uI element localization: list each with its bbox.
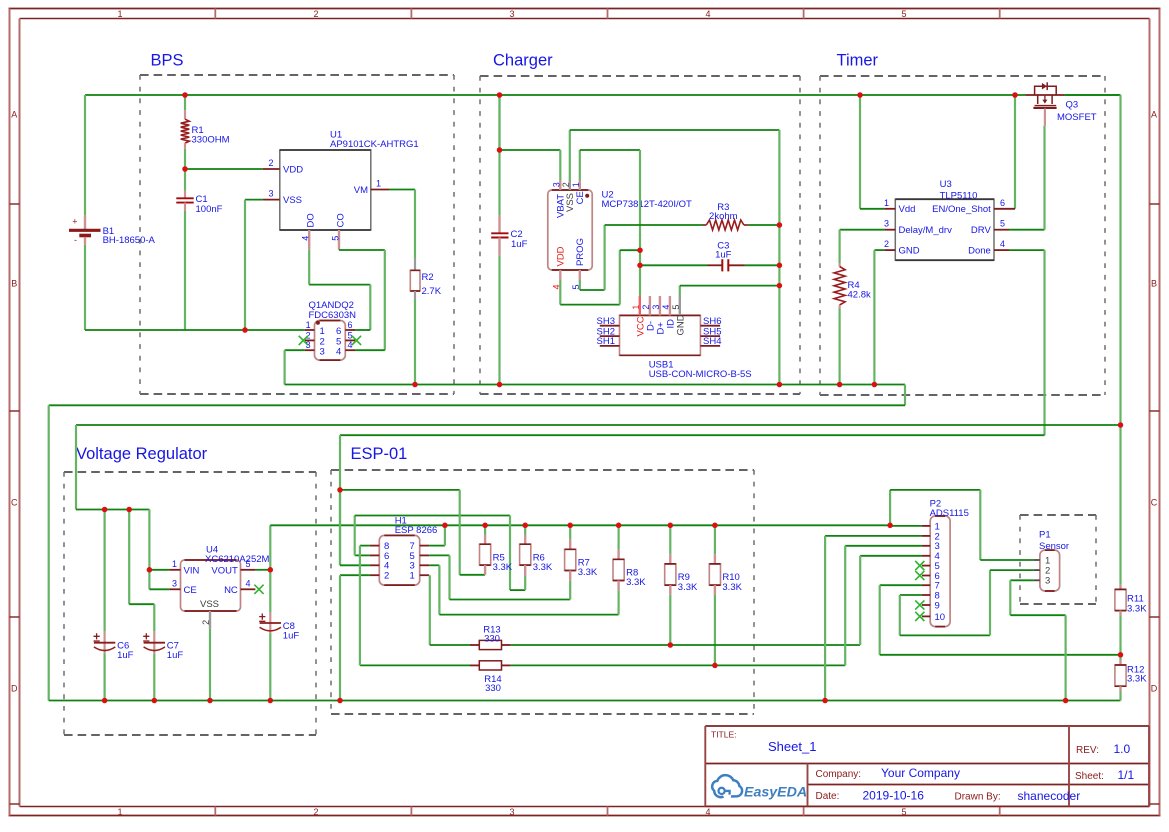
wire U3 Vdd from rail [859,95,861,209]
svg-text:2: 2 [313,9,318,19]
svg-text:EN/One_Shot: EN/One_Shot [932,204,991,215]
svg-text:1: 1 [172,559,177,569]
svg-text:REV:: REV: [1076,745,1099,756]
svg-text:Sheet:: Sheet: [1075,771,1104,782]
svg-text:Delay/M_drv: Delay/M_drv [899,225,953,236]
wire H1 pin6 to R6 [355,554,370,556]
junction U4 VSS ground [207,698,213,704]
wire Done down [1009,249,1045,251]
wire ground rail jog [904,385,906,406]
resistor R9 3.3K [669,525,671,554]
wire Delay to R4 [840,229,885,231]
junction U3 GND rail [872,382,878,388]
H1 pin 6 [370,554,379,556]
junction U3 Vdd [857,92,863,98]
resistor R4 [838,263,840,267]
svg-text:5: 5 [671,305,681,310]
wire P2 pin7 to R11 node [880,584,922,586]
svg-text:B: B [11,279,17,289]
svg-text:2: 2 [561,182,571,187]
U3 pin 4 Done [994,249,1009,251]
wire C2 to ground rail [498,238,500,256]
wire R3 to VSS vertical [749,224,780,226]
svg-text:ESP-01: ESP-01 [351,445,408,463]
svg-text:1: 1 [410,571,415,582]
U1 pin 1 VM [371,189,389,191]
EasyEDA logo [712,775,742,797]
svg-text:1uF: 1uF [167,650,184,661]
U3 pin 2 GND [884,249,895,251]
svg-text:5: 5 [246,559,251,569]
svg-text:Vdd: Vdd [899,204,916,215]
wire R2 to ground rail [414,300,416,385]
svg-text:Company:: Company: [816,769,862,780]
wire R13 row left [430,644,470,646]
USB1 shield pin SH1 [600,345,620,347]
svg-text:TLP5110: TLP5110 [940,190,978,201]
resistor R5 3.3K [484,525,486,534]
wire R14 row right [511,664,845,666]
svg-text:VIN: VIN [184,565,200,576]
USB1 shield pin SH4 [700,345,720,347]
svg-text:3.3K: 3.3K [493,562,513,573]
IC U4 XC6210A252M [181,560,241,611]
wire C7 branch [128,510,130,605]
wire U1 VM to R2 [389,189,415,191]
junction VIN node [147,567,153,573]
svg-text:NC: NC [224,585,238,596]
Q1 pin 1 [305,329,315,331]
connector P2 ADS1115 [930,516,950,627]
wire CE to USB VCC [639,150,641,296]
U4 pin 5 VOUT [241,569,256,571]
wire DO to Q1 pin6 [308,250,310,285]
wire rail to R1 [184,95,186,110]
Q1 pin 6 [345,329,355,331]
P2 pin 1 [922,525,930,527]
svg-text:VM: VM [354,185,368,196]
junction R1 top [182,92,188,98]
svg-text:SH4: SH4 [703,336,721,347]
wire P1 pin3 to ground [1010,579,1034,581]
svg-text:DO: DO [305,213,316,227]
BPS dashed box [140,75,454,394]
junction C3 left [637,263,643,269]
svg-text:3.3K: 3.3K [533,562,553,573]
U4 pin 2 VSS [209,611,211,629]
svg-text:VSS: VSS [283,195,302,206]
svg-text:4: 4 [336,347,341,358]
wire VR top distribution [76,509,149,511]
H1 pin 4 [370,564,379,566]
USB1 shield pin SH6 [700,325,720,327]
svg-text:4: 4 [705,9,710,19]
svg-text:CO: CO [335,213,346,227]
Charger dashed box [480,76,800,394]
U3 pin 1 Vdd [884,208,895,210]
wire R4 to ground rail [838,309,840,385]
svg-text:MOSFET: MOSFET [1057,112,1097,123]
wire U1 VSS to ground row [245,199,263,201]
U2 pin 4 VDD [559,270,561,280]
svg-text:CE: CE [184,585,197,596]
wire H1 pin5 to R7 [429,554,449,556]
P2 pin 8 [922,594,930,596]
junction H1 pin2 ground [337,698,343,704]
no-connect X Q1 pin 5 [352,336,361,345]
svg-text:P1: P1 [1039,530,1051,541]
junction [497,147,503,153]
connector USB1 USB-CON-MICRO-B-5S [620,315,701,355]
capacitor C6 [103,632,105,654]
junction C6 ground [102,698,108,704]
wire charger VBAT feed [498,95,500,150]
junction C6 top [102,507,108,513]
wire U4 VSS to ground [209,629,211,701]
svg-text:R2: R2 [422,272,434,283]
Q1 pin 2 [305,339,315,341]
USB1 pin 3 D+ [659,296,661,315]
wire Done rail [340,434,1045,436]
svg-text:SH6: SH6 [703,316,721,327]
wire P2 pin4 to R13 row [860,555,922,557]
P2 pin 4 [922,555,930,557]
svg-text:2: 2 [268,158,273,168]
U3 pin 3 Delay/M_drv [884,229,895,231]
svg-text:VDD: VDD [283,165,303,176]
svg-text:Done: Done [968,246,991,257]
svg-text:330OHM: 330OHM [192,135,230,146]
svg-text:3.3K: 3.3K [722,582,742,593]
wire battery positive [84,95,86,215]
junction C8 ground [268,698,274,704]
svg-text:BPS: BPS [151,51,184,69]
svg-text:1: 1 [117,9,122,19]
svg-text:1: 1 [631,305,641,310]
Q1 pin 4 [345,349,355,351]
junction R9 R13 [668,642,674,648]
no-connect X P2 pin 9 [915,600,924,609]
svg-text:Charger: Charger [493,51,553,69]
svg-text:CE: CE [575,191,586,204]
H1 pin 8 [370,545,379,547]
svg-text:Timer: Timer [837,51,879,69]
no-connect X P2 pin 5 [915,561,924,570]
wire R10 to R14 row [714,595,716,666]
svg-text:Q3: Q3 [1066,100,1079,111]
Q1 pin 3 [305,349,315,351]
U4 pin 4 NC [241,588,256,590]
wire C8 to ground [269,634,271,701]
svg-text:3: 3 [320,347,325,358]
svg-text:4: 4 [661,305,671,310]
junction R4 ground rail [837,382,843,388]
svg-text:SH1: SH1 [597,336,615,347]
wire VIN stub link [149,569,169,571]
svg-text:Sheet_1: Sheet_1 [768,739,816,754]
wire 3.3V branch to P1 pin1 [889,490,891,526]
wire VDD node to U1 pin2 [185,168,263,170]
junction P2 pin1 rail [887,523,893,529]
svg-text:2: 2 [201,620,211,625]
IC U1 AP9101CK-AHTRG1 [280,150,371,230]
ESP-01 dashed box [331,470,754,714]
P2 pin 6 [922,575,930,577]
wire U2 PROG to R3 [579,280,581,290]
junction regulator input at right column [1118,422,1124,428]
svg-text:5: 5 [901,807,906,817]
U2 pin 3 VBAT [559,180,561,190]
svg-text:D: D [11,684,18,694]
svg-text:3.3K: 3.3K [578,567,598,578]
svg-text:ADS1115: ADS1115 [930,508,969,519]
wire 3.3V rail [270,524,890,526]
connector P1 Sensor [1040,550,1060,591]
svg-text:1uF: 1uF [715,249,732,260]
wire C6 branch [103,510,105,632]
svg-text:U3: U3 [940,179,952,190]
svg-text:3: 3 [551,182,561,187]
svg-text:1uF: 1uF [511,239,528,250]
P2 pin 5 [922,565,930,567]
P2 pin 2 [922,535,930,537]
junction R7 top [567,523,573,529]
junction C2 bottom rail [497,382,503,388]
svg-text:2019-10-16: 2019-10-16 [863,789,925,803]
wire C3 right [745,264,780,266]
connector H1 ESP 8266 [379,535,419,585]
junction C7 ground [152,698,158,704]
wire VBAT+ top rail [85,94,1025,96]
frame column ticks top [214,9,216,19]
resistor R6 3.3K [524,525,526,534]
wire C7 to ground [153,653,155,700]
wire main ground rail [49,700,1121,702]
junction R8 top [616,523,622,529]
no-connect X Q1 pin 2 [299,336,308,345]
H1 pin 3 [420,564,430,566]
junction VDD node [182,166,188,172]
resistor R8 3.3K [617,525,619,549]
USB1 pin 2 D- [649,296,651,315]
svg-text:MCP73812T-420I/OT: MCP73812T-420I/OT [602,199,692,210]
no-connect X U4 NC [254,585,263,594]
svg-text:3: 3 [509,9,514,19]
U1 pin 4 DO [308,230,310,250]
svg-text:TITLE:: TITLE: [711,730,737,740]
U1 pin 2 VDD [263,168,280,170]
capacitor C8 [269,612,271,634]
svg-text:9: 9 [935,600,940,611]
svg-text:ESP 8266: ESP 8266 [395,525,438,536]
svg-text:2: 2 [384,571,389,582]
svg-text:USB-CON-MICRO-B-5S: USB-CON-MICRO-B-5S [649,369,752,380]
svg-text:1/1: 1/1 [1118,768,1135,782]
USB1 shield pin SH5 [700,335,720,337]
svg-text:EasyEDA: EasyEDA [744,785,807,801]
H1 pin 5 [420,554,430,556]
svg-text:GND: GND [675,314,686,335]
wire CO to Q1 pin4 [338,249,340,252]
H1 pin 2 [370,574,379,576]
svg-text:-: - [74,235,77,245]
no-connect X P2 pin 10 [915,612,924,621]
svg-text:DRV: DRV [971,225,992,236]
wire input rail to R11 [1119,425,1121,585]
svg-text:3.3K: 3.3K [1127,604,1147,615]
wire rail to C2 [498,95,500,215]
svg-text:6: 6 [348,320,353,330]
svg-text:A: A [1151,110,1157,120]
junction R3 right [777,222,783,228]
resistor R10 3.3K [714,525,716,554]
svg-text:1: 1 [306,320,311,330]
svg-text:PROG: PROG [575,238,586,266]
svg-text:330: 330 [485,683,501,694]
wire to U4 VIN/CE [148,510,150,590]
resistor R2 [414,258,416,270]
svg-text:5: 5 [330,236,340,241]
U4 pin 1 VIN [169,569,180,571]
svg-text:shanecoder: shanecoder [1018,789,1081,803]
wire R11 to node [1119,615,1121,654]
resistor R11 3.3K [1119,585,1121,590]
USB1 shield pin SH2 [600,335,620,337]
svg-text:6: 6 [1000,198,1005,208]
junction P1 pin3 ground [1063,698,1069,704]
svg-text:3: 3 [651,305,661,310]
wire P2 pin3 to R14 row [845,545,922,547]
P1 pin 2 [1034,569,1040,571]
svg-text:1: 1 [571,182,581,187]
wire U2 VDD down [559,280,561,305]
transistor Q3 MOSFET [1025,82,1064,126]
battery B1 [84,215,86,230]
U3 pin 6 EN/One_Shot [994,208,1015,210]
junction C2 top [497,92,503,98]
svg-text:3.3K: 3.3K [678,582,698,593]
resistor R13 330 [470,644,479,646]
svg-text:10: 10 [935,612,946,623]
transistor Q1 FDC6303N [315,321,346,361]
wire U3 GND down [874,249,884,251]
Voltage Regulator dashed box [64,472,316,735]
resistor R7 3.3K [569,525,571,539]
svg-text:2: 2 [641,305,651,310]
H1 pin 7 [420,545,430,547]
junction R9 top [668,523,674,529]
svg-text:+: + [72,217,77,227]
svg-text:A: A [11,110,17,120]
USB1 shield pin SH3 [600,325,620,327]
resistor R12 3.3K [1119,660,1121,665]
svg-text:C: C [1151,498,1158,508]
junction CE/VDD node [637,247,643,253]
wire regulator input rail [1119,95,1121,425]
svg-text:2.7K: 2.7K [422,286,442,297]
junction VSS ground row [242,327,248,333]
junction C7 top [126,507,132,513]
resistor R1 [184,110,186,119]
svg-text:2: 2 [884,239,889,249]
svg-text:1: 1 [376,179,381,189]
svg-text:B: B [1151,279,1157,289]
wire H1 pin4 from Done [339,490,341,565]
wire R14 row left [360,664,470,666]
svg-text:1uF: 1uF [283,630,300,641]
svg-text:3.3K: 3.3K [626,577,646,588]
wire C1 to ground row [184,203,186,211]
U1 pin 5 CO [338,230,340,250]
H1 pin 1 [420,574,430,576]
svg-text:Your Company: Your Company [881,766,960,780]
wire node to R12 [1119,655,1121,661]
USB1 pin 4 ID [669,296,671,315]
svg-text:3: 3 [509,807,514,817]
svg-text:2kohm: 2kohm [709,211,738,222]
wire VOUT node [255,569,270,571]
svg-text:VSS: VSS [200,599,219,610]
IC U2 MCP73812T-420I/OT [548,190,592,270]
wire R13 row right [511,644,860,646]
svg-text:100nF: 100nF [196,204,223,215]
wire pullup feed R5 [340,489,460,491]
svg-text:VOUT: VOUT [211,565,238,576]
svg-text:4: 4 [705,807,710,817]
svg-text:3.3K: 3.3K [1127,674,1147,685]
svg-text:3: 3 [306,340,311,350]
junction H1 pin7 rail [442,523,448,529]
svg-text:3: 3 [884,219,889,229]
wire H1 pin3 to R8 [429,564,439,566]
wire Q3 to right column [1064,94,1120,96]
svg-text:4: 4 [1000,239,1005,249]
no-connect X P2 pin 6 [915,571,924,580]
capacitor C7 [153,632,155,654]
wire U2 CE up [579,150,581,180]
junction Done to pullup [337,487,343,493]
IC U3 TLP5110 [895,199,994,260]
wire battery negative [84,245,86,330]
wire H1 pin1 to R13 row [429,575,431,645]
wire R1 to VDD node [184,149,186,169]
wire DRV to Q3 gate [1009,229,1045,231]
wire VOUT up to 3.3V rail [269,525,271,570]
title block border [705,726,1149,806]
capacitor C1 [184,191,186,199]
wire H1 pin8 to R14 [360,545,370,547]
wire 3.3V to P2 pin1 [890,525,922,527]
U3 pin 5 DRV [994,229,1009,231]
wire C3 row left [640,264,708,266]
U2 pin 5 PROG [579,270,581,280]
svg-text:1.0: 1.0 [1114,742,1131,756]
svg-text:SH3: SH3 [597,316,615,327]
junction VOUT [268,567,274,573]
junction R10 top [712,523,718,529]
svg-text:VDD: VDD [556,246,567,266]
svg-text:1uF: 1uF [117,650,134,661]
wire R12 to ground rail [1119,691,1121,701]
svg-text:4: 4 [301,236,311,241]
USB1 pin 1 VCC [639,296,641,315]
svg-text:Drawn By:: Drawn By: [955,792,1001,803]
wire USB GND up-right [679,286,681,296]
P2 pin 10 [922,615,930,617]
svg-text:Sensor: Sensor [1039,541,1069,552]
svg-text:C: C [11,498,18,508]
svg-text:2: 2 [306,330,311,340]
